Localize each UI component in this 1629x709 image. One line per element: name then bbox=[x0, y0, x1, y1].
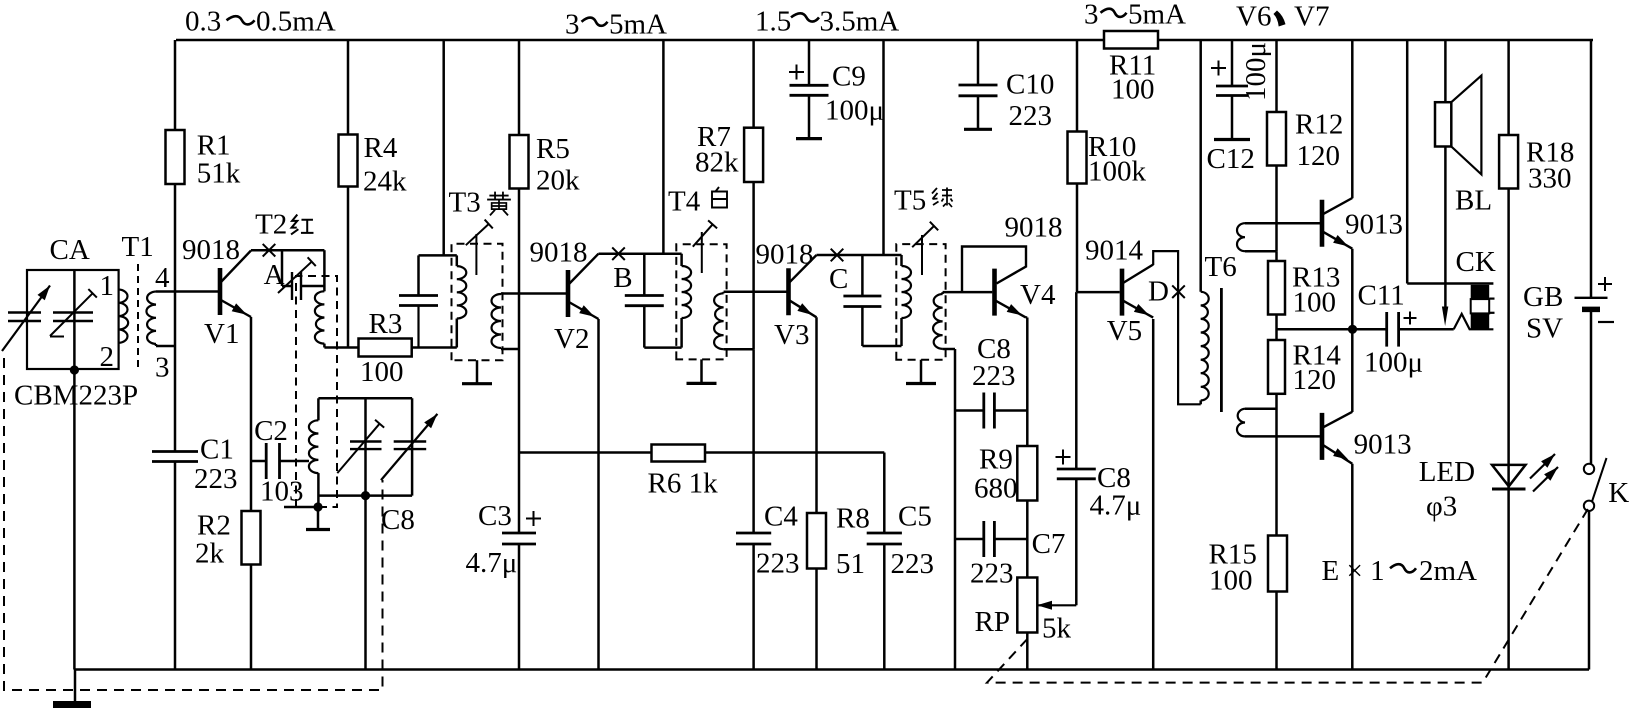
svg-text:E × 1: E × 1 bbox=[1322, 555, 1385, 587]
svg-text:R6 1k: R6 1k bbox=[648, 468, 719, 500]
svg-text:CBM223P: CBM223P bbox=[14, 380, 138, 412]
svg-text:120: 120 bbox=[1297, 140, 1341, 172]
svg-text:CK: CK bbox=[1456, 246, 1496, 278]
svg-text:5k: 5k bbox=[1042, 613, 1072, 645]
svg-text:1: 1 bbox=[100, 270, 115, 302]
svg-text:100: 100 bbox=[1209, 565, 1253, 597]
svg-text:V6: V6 bbox=[1236, 1, 1271, 33]
svg-text:V4: V4 bbox=[1020, 279, 1056, 311]
svg-text:223: 223 bbox=[970, 558, 1014, 590]
svg-text:4: 4 bbox=[155, 262, 170, 294]
svg-text:20k: 20k bbox=[536, 165, 580, 197]
svg-text:B: B bbox=[613, 262, 632, 294]
svg-text:φ3: φ3 bbox=[1426, 491, 1457, 523]
svg-text:2: 2 bbox=[100, 341, 115, 373]
svg-text:0.3: 0.3 bbox=[185, 6, 221, 38]
svg-text:3.5mA: 3.5mA bbox=[820, 5, 900, 37]
svg-text:1.5: 1.5 bbox=[755, 5, 791, 37]
svg-text:R8: R8 bbox=[836, 503, 870, 535]
svg-text:9018: 9018 bbox=[756, 239, 814, 271]
svg-text:9018: 9018 bbox=[182, 234, 240, 266]
svg-text:V7: V7 bbox=[1294, 1, 1329, 33]
svg-text:C11: C11 bbox=[1358, 280, 1405, 312]
svg-text:5mA: 5mA bbox=[1128, 0, 1186, 31]
svg-text:A: A bbox=[264, 259, 285, 291]
svg-text:R5: R5 bbox=[536, 133, 570, 165]
svg-text:R3: R3 bbox=[369, 308, 403, 340]
svg-text:100μ: 100μ bbox=[1364, 347, 1423, 379]
svg-text:C2: C2 bbox=[254, 415, 288, 447]
svg-text:51k: 51k bbox=[197, 157, 241, 189]
svg-text:CA: CA bbox=[50, 234, 90, 266]
svg-text:R9: R9 bbox=[979, 444, 1013, 476]
svg-text:0.5mA: 0.5mA bbox=[256, 6, 336, 38]
svg-text:223: 223 bbox=[972, 360, 1016, 392]
svg-text:C1: C1 bbox=[200, 434, 234, 466]
svg-text:2mA: 2mA bbox=[1419, 555, 1477, 587]
svg-text:T4: T4 bbox=[668, 186, 701, 218]
svg-text:GB: GB bbox=[1523, 281, 1563, 313]
svg-text:223: 223 bbox=[891, 548, 935, 580]
svg-text:100k: 100k bbox=[1088, 156, 1147, 188]
svg-text:LED: LED bbox=[1419, 456, 1475, 488]
svg-text:C10: C10 bbox=[1006, 69, 1054, 101]
svg-text:100: 100 bbox=[360, 356, 404, 388]
svg-text:C: C bbox=[829, 263, 848, 295]
svg-text:3: 3 bbox=[1084, 0, 1099, 31]
svg-text:3: 3 bbox=[155, 352, 170, 384]
svg-text:9014: 9014 bbox=[1085, 235, 1144, 267]
svg-text:V5: V5 bbox=[1107, 315, 1142, 347]
svg-text:C8: C8 bbox=[381, 504, 415, 536]
svg-text:2k: 2k bbox=[195, 538, 225, 570]
svg-text:BL: BL bbox=[1455, 185, 1492, 217]
svg-text:9013: 9013 bbox=[1354, 429, 1412, 461]
svg-text:9018: 9018 bbox=[1005, 212, 1063, 244]
svg-text:T2: T2 bbox=[255, 209, 287, 241]
svg-text:4.7μ: 4.7μ bbox=[466, 547, 518, 579]
svg-text:C3: C3 bbox=[478, 500, 512, 532]
svg-text:K: K bbox=[1608, 477, 1629, 509]
svg-text:5mA: 5mA bbox=[609, 9, 667, 41]
svg-text:100μ: 100μ bbox=[825, 95, 884, 127]
svg-text:RP: RP bbox=[975, 606, 1010, 638]
svg-text:223: 223 bbox=[756, 548, 800, 580]
svg-text:V3: V3 bbox=[774, 319, 809, 351]
svg-text:680: 680 bbox=[974, 473, 1018, 505]
svg-text:4.7μ: 4.7μ bbox=[1090, 490, 1142, 522]
svg-text:R12: R12 bbox=[1295, 109, 1343, 141]
svg-text:R4: R4 bbox=[364, 132, 398, 164]
svg-text:51: 51 bbox=[836, 548, 865, 580]
svg-text:T3: T3 bbox=[449, 187, 481, 219]
svg-text:223: 223 bbox=[1009, 100, 1053, 132]
svg-text:T5: T5 bbox=[894, 185, 926, 217]
svg-text:103: 103 bbox=[260, 476, 304, 508]
svg-text:C4: C4 bbox=[764, 501, 798, 533]
svg-text:3: 3 bbox=[565, 9, 580, 41]
svg-text:V1: V1 bbox=[204, 318, 239, 350]
svg-text:100μ: 100μ bbox=[1240, 42, 1272, 101]
svg-text:T6: T6 bbox=[1205, 251, 1237, 283]
svg-text:V2: V2 bbox=[554, 323, 589, 355]
svg-text:SV: SV bbox=[1526, 313, 1563, 345]
svg-text:82k: 82k bbox=[695, 147, 739, 179]
svg-text:C12: C12 bbox=[1207, 143, 1255, 175]
svg-text:C9: C9 bbox=[832, 61, 866, 93]
svg-text:330: 330 bbox=[1528, 163, 1572, 195]
svg-text:120: 120 bbox=[1293, 364, 1337, 396]
svg-text:9018: 9018 bbox=[530, 237, 588, 269]
svg-text:D: D bbox=[1148, 276, 1169, 308]
svg-text:C5: C5 bbox=[898, 501, 932, 533]
svg-text:24k: 24k bbox=[363, 166, 407, 198]
svg-text:9013: 9013 bbox=[1345, 209, 1403, 241]
svg-text:C7: C7 bbox=[1032, 528, 1066, 560]
svg-text:T1: T1 bbox=[122, 231, 154, 263]
svg-text:223: 223 bbox=[194, 463, 238, 495]
svg-text:100: 100 bbox=[1111, 74, 1155, 106]
svg-text:100: 100 bbox=[1293, 287, 1337, 319]
